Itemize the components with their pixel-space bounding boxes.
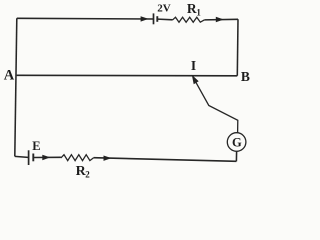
wire A-B [17,74,238,77]
current arrow after E [42,155,50,160]
jockey arrow head [192,75,199,84]
galvanometer G [227,133,246,152]
svg-text:B: B [241,69,250,84]
svg-text:1: 1 [196,8,201,18]
wire battery E to R2 [34,156,61,158]
resistor R1 [173,17,205,22]
wire R1 to top-right corner [204,18,238,21]
wire G to bottom wire [235,151,237,161]
svg-text:2: 2 [85,170,90,179]
label 2V [157,2,171,14]
current arrow after R2 [104,156,112,161]
svg-text:G: G [232,135,242,149]
wire R2 to galvanometer branch [94,158,237,162]
current arrow on top wire [141,16,149,21]
battery E [29,150,34,165]
wire battery to R1 [158,18,173,21]
label I (current) [191,58,196,73]
battery 2V [154,13,158,24]
resistor R2 [61,155,94,161]
svg-text:E: E [32,139,40,153]
svg-text:R: R [187,1,197,16]
current arrow after R1 [216,17,224,22]
wire jockey to galvanometer [194,78,238,133]
wire right segment [236,19,239,76]
svg-text:A: A [4,67,15,83]
wire bottom left to battery E [15,156,28,157]
svg-text:I: I [191,58,196,73]
label E [32,139,40,153]
node A label [4,67,15,83]
label R2 [76,164,91,180]
wire left segment [15,18,17,156]
svg-text:2V: 2V [157,2,171,14]
node B label [241,69,250,84]
label R1 [187,1,202,18]
wire top segment left [17,17,154,20]
